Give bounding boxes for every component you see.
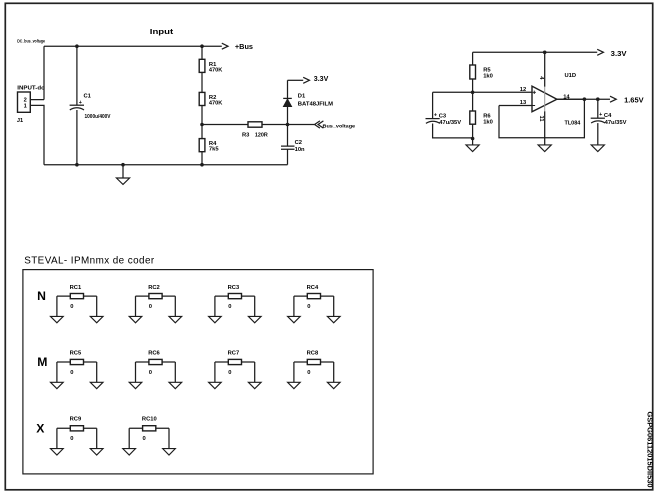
svg-text:470K: 470K — [209, 101, 223, 107]
svg-text:0: 0 — [307, 370, 310, 376]
wire J1 pin2 riser — [30, 46, 44, 99]
node junction bus/C1 — [75, 44, 79, 48]
svg-text:120R: 120R — [255, 132, 269, 138]
node junction output/feedback — [583, 97, 587, 101]
node junction output/C4 — [596, 97, 600, 101]
svg-text:0: 0 — [149, 370, 152, 376]
node +Bus — [222, 42, 253, 51]
node junction divider/R3 — [200, 123, 204, 127]
svg-text:0: 0 — [70, 304, 73, 310]
svg-text:M: M — [37, 355, 47, 369]
label row N — [37, 289, 46, 303]
svg-text:10n: 10n — [295, 147, 305, 153]
svg-text:470K: 470K — [209, 67, 223, 73]
svg-text:+: + — [599, 112, 602, 118]
svg-text:RC4: RC4 — [307, 285, 319, 291]
ground (input section) — [116, 165, 129, 185]
wire DC bus top rail — [44, 45, 222, 47]
svg-text:U1D: U1D — [565, 73, 577, 79]
pin 13 label — [520, 100, 527, 106]
capacitor C2 — [281, 125, 305, 165]
svg-text:R3: R3 — [242, 132, 250, 138]
diode D1 — [283, 80, 333, 124]
wire 3.3V rail (op-amp section) — [473, 51, 598, 53]
svg-text:47u/35V: 47u/35V — [605, 120, 627, 126]
ground (RC6 left) — [129, 382, 142, 388]
resistor RC1 — [57, 285, 97, 316]
svg-text:11: 11 — [538, 116, 544, 123]
wire inverting input — [499, 105, 532, 107]
wire non-inverting input node — [433, 91, 532, 93]
svg-text:3.3V: 3.3V — [314, 74, 329, 83]
svg-text:RC6: RC6 — [148, 351, 160, 357]
label row X — [36, 421, 45, 435]
op-amp U1D — [532, 73, 581, 126]
node 1.65V — [610, 95, 645, 104]
wire feedback loop — [499, 99, 584, 138]
pin 14 label — [563, 94, 570, 100]
svg-text:C3: C3 — [439, 113, 447, 119]
svg-text:2: 2 — [24, 97, 27, 103]
svg-text:3.3V: 3.3V — [611, 49, 628, 58]
connector J1 — [17, 86, 45, 124]
power 3.3V (right) — [597, 49, 627, 58]
block STEVAL-IPMnmx decoder — [23, 255, 373, 474]
svg-text:N: N — [37, 289, 46, 303]
ground (RC9 left) — [51, 449, 64, 455]
svg-text:BAT48JFILM: BAT48JFILM — [298, 101, 333, 107]
resistor R3 — [202, 122, 314, 139]
svg-text:STEVAL- IPMnmx de coder: STEVAL- IPMnmx de coder — [24, 255, 155, 266]
ground (RC7 left) — [209, 382, 222, 388]
node junction rail/ground — [121, 163, 125, 167]
ground (RC9 right) — [90, 449, 103, 455]
resistor RC6 — [136, 351, 176, 383]
capacitor C1 — [70, 46, 111, 165]
ground (RC6 right) — [169, 382, 182, 388]
svg-text:47u/35V: 47u/35V — [439, 120, 461, 126]
svg-text:0: 0 — [307, 304, 310, 310]
svg-text:INPUT-dc: INPUT-dc — [17, 86, 44, 92]
resistor RC8 — [294, 351, 334, 383]
svg-text:RC7: RC7 — [228, 351, 240, 357]
ground (RC3 left) — [209, 316, 222, 322]
capacitor C3 — [426, 92, 473, 138]
svg-text:D1: D1 — [298, 93, 306, 99]
ground (RC8 right) — [327, 382, 340, 388]
svg-text:GSPG06112015DII530: GSPG06112015DII530 — [645, 412, 654, 488]
svg-text:RC5: RC5 — [70, 351, 82, 357]
svg-text:1k0: 1k0 — [483, 119, 493, 125]
svg-text:0: 0 — [70, 370, 73, 376]
node junction R3/D1/C2 — [286, 123, 290, 127]
resistor R5 — [470, 52, 493, 92]
power 3.3V (left) — [288, 74, 330, 83]
resistor RC10 — [129, 416, 169, 448]
svg-text:0: 0 — [70, 436, 73, 442]
svg-text:C2: C2 — [295, 140, 302, 146]
svg-text:RC10: RC10 — [142, 416, 157, 422]
svg-text:0: 0 — [143, 436, 146, 442]
ground (RC8 left) — [288, 382, 301, 388]
resistor R4 — [199, 125, 219, 165]
ground (RC5 right) — [90, 382, 103, 388]
node junction R5/R6/C3 — [471, 91, 475, 95]
ground (op-amp) — [538, 145, 551, 152]
node junction R6/C3/ground — [471, 137, 475, 141]
svg-text:0: 0 — [228, 370, 231, 376]
svg-text:1: 1 — [24, 104, 27, 110]
svg-text:RC8: RC8 — [307, 351, 319, 357]
svg-text:1k0: 1k0 — [483, 73, 493, 79]
net label DC_bus_voltage — [17, 39, 45, 45]
svg-text:+Bus: +Bus — [235, 42, 253, 51]
svg-text:RC9: RC9 — [70, 416, 82, 422]
svg-text:1.65V: 1.65V — [624, 95, 644, 104]
svg-text:0: 0 — [149, 304, 152, 310]
svg-text:RC1: RC1 — [70, 285, 82, 291]
svg-text:Input: Input — [150, 27, 174, 36]
node junction rail/C1 — [75, 163, 79, 167]
svg-text:TL084: TL084 — [565, 120, 582, 126]
resistor RC4 — [294, 285, 334, 316]
resistor R1 — [199, 46, 223, 92]
svg-text:Bus_voltage: Bus_voltage — [323, 124, 356, 130]
resistor RC3 — [215, 285, 255, 316]
pin 12 label — [520, 87, 526, 93]
wire op-amp power pin 4/11 — [538, 52, 545, 145]
ground (RC4 left) — [288, 316, 301, 322]
svg-text:12: 12 — [520, 87, 526, 93]
ground (RC4 right) — [327, 316, 340, 322]
svg-text:DC_bus_voltage: DC_bus_voltage — [17, 39, 45, 45]
node junction bus/divider — [200, 44, 204, 48]
ground (R6 node) — [466, 139, 479, 152]
resistor RC7 — [215, 351, 255, 383]
wire J1 pin1 to ground rail — [30, 105, 44, 164]
capacitor C4 — [591, 99, 627, 145]
ground (RC10 left) — [123, 449, 136, 455]
svg-text:C4: C4 — [604, 113, 612, 119]
svg-text:C1: C1 — [84, 93, 92, 99]
node junction rail/R4 — [200, 163, 204, 167]
label Input — [150, 27, 174, 36]
resistor R2 — [199, 92, 223, 124]
svg-text:+: + — [434, 113, 437, 119]
svg-text:J1: J1 — [17, 118, 23, 124]
ground (RC3 right) — [248, 316, 261, 322]
label row M — [37, 355, 47, 369]
svg-text:X: X — [36, 421, 45, 435]
resistor RC5 — [57, 351, 97, 383]
ground (C4) — [591, 145, 604, 152]
svg-text:RC3: RC3 — [228, 285, 240, 291]
resistor R6 — [470, 92, 493, 138]
resistor RC9 — [57, 416, 97, 448]
svg-text:7k5: 7k5 — [209, 147, 219, 153]
wire output — [557, 98, 610, 100]
svg-text:0: 0 — [228, 304, 231, 310]
ground (RC5 left) — [51, 382, 64, 388]
svg-text:+: + — [79, 100, 82, 106]
svg-text:RC2: RC2 — [148, 285, 160, 291]
net label Bus_voltage off-page chevron — [315, 121, 356, 130]
wire ground rail bottom — [44, 164, 288, 166]
ground (RC1 left) — [51, 316, 64, 322]
ground (RC2 right) — [169, 316, 182, 322]
label document code — [645, 412, 654, 488]
ground (RC7 right) — [248, 382, 261, 388]
ground (RC10 right) — [163, 449, 176, 455]
resistor RC2 — [136, 285, 176, 316]
ground (RC1 right) — [90, 316, 103, 322]
node junction rail/op-amp power — [543, 51, 547, 55]
ground (RC2 left) — [129, 316, 142, 322]
svg-text:1000u/400V: 1000u/400V — [85, 114, 111, 120]
